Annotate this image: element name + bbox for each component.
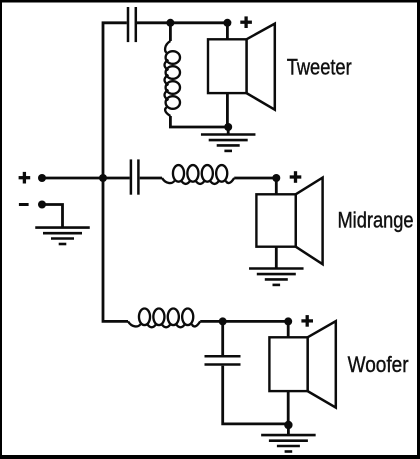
- svg-text:Tweeter: Tweeter: [287, 54, 352, 79]
- svg-text:Midrange: Midrange: [338, 208, 414, 233]
- svg-text:Woofer: Woofer: [348, 352, 409, 377]
